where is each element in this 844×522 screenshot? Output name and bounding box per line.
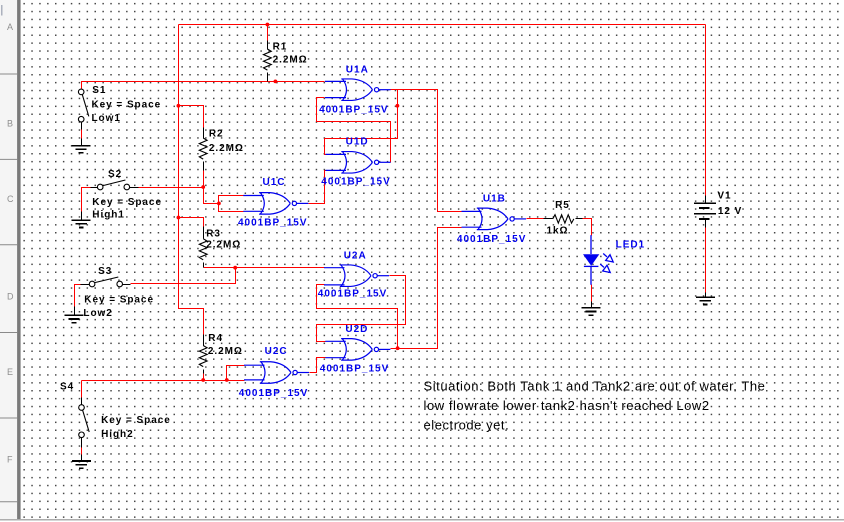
node: junction on row1 right of R1 xyxy=(274,80,278,84)
svg-text:2.2MΩ: 2.2MΩ xyxy=(209,143,244,154)
wire: V1 plus to top rail xyxy=(705,25,707,196)
ground under V1 xyxy=(705,293,707,298)
wire: S4 bottom to ground (red segment) xyxy=(81,448,83,455)
svg-text:High1: High1 xyxy=(92,210,125,221)
svg-text:Key = Space: Key = Space xyxy=(92,100,162,111)
wire: rail to R2 top xyxy=(179,106,204,128)
svg-text:4001BP_15V: 4001BP_15V xyxy=(239,388,308,399)
resistor R3 xyxy=(203,227,205,239)
dark divider bar xyxy=(17,0,21,519)
wire: U2A output to U2D input1 xyxy=(317,276,406,342)
svg-text:U2A: U2A xyxy=(344,250,367,261)
ground under S2 xyxy=(72,220,91,227)
wire: rail to R3 top xyxy=(179,218,204,227)
svg-text:F: F xyxy=(7,455,13,465)
svg-text:D: D xyxy=(7,292,14,302)
svg-text:1kΩ: 1kΩ xyxy=(547,225,569,236)
svg-text:Low2: Low2 xyxy=(83,308,112,319)
wire: S1/R1 row to U1A input 1 xyxy=(82,82,325,89)
svg-text:S4: S4 xyxy=(60,381,74,392)
wire: S4 top stub xyxy=(81,381,83,398)
node: junction U2D output xyxy=(396,346,400,350)
wire: U1A input2 feedback from U1D output xyxy=(317,98,391,163)
node: junction R4 bottom xyxy=(201,378,205,382)
svg-text:4001BP_15V: 4001BP_15V xyxy=(457,234,527,245)
svg-text:R4: R4 xyxy=(208,333,223,344)
svg-text:4001BP_15V: 4001BP_15V xyxy=(319,104,389,115)
node: junction R1 top xyxy=(266,23,270,27)
ground under LED1 xyxy=(591,302,593,308)
node: junction rail/R2 row xyxy=(177,104,181,108)
svg-text:High2: High2 xyxy=(101,429,134,440)
wire: S3 up to R3 row xyxy=(131,268,236,284)
svg-text:B: B xyxy=(7,119,13,129)
left ruler strip xyxy=(0,0,17,519)
wire: S4/R4 row to U2C input2 xyxy=(82,380,245,382)
svg-text:2.2MΩ: 2.2MΩ xyxy=(273,55,308,66)
svg-text:Key = Space: Key = Space xyxy=(101,415,171,426)
wire: U2D output to U1B input2 xyxy=(391,228,462,349)
NOR gate U2A (4001BP_15V) xyxy=(324,265,389,287)
wire: U2A input2 feedback from U2D output xyxy=(317,285,398,349)
ground under S4 xyxy=(72,461,91,468)
svg-text:U2C: U2C xyxy=(265,346,288,357)
wire: V1 minus to ground xyxy=(705,228,707,293)
svg-text:U1D: U1D xyxy=(346,136,369,147)
NOR gate U1B (4001BP_15V) xyxy=(462,208,527,230)
ground under S1 xyxy=(72,146,91,153)
node: junction rail/R3 row xyxy=(177,216,181,220)
ground under S3 xyxy=(65,315,84,322)
NOR gate U2D (4001BP_15V) xyxy=(325,339,390,361)
svg-text:V1: V1 xyxy=(717,191,731,202)
switch S3 (Key = Space) xyxy=(81,284,90,286)
svg-text:2.2MΩ: 2.2MΩ xyxy=(206,240,241,251)
wire: U2C output to U2D input2 xyxy=(310,358,326,373)
svg-text:4001BP_15V: 4001BP_15V xyxy=(320,363,390,374)
wire: S3 left terminal to ground xyxy=(75,285,90,307)
wire: U1A output to U1B input1 xyxy=(391,90,462,212)
svg-text:S3: S3 xyxy=(98,266,112,277)
wire: R3 bottom row to U2A input1 xyxy=(204,267,325,269)
svg-text:Key = Space: Key = Space xyxy=(92,197,162,208)
ruler top mark xyxy=(1,5,3,16)
node: junction U1C input tie xyxy=(217,202,221,206)
resistor R5 xyxy=(544,218,553,220)
wire: R2 bottom lead down to U1C input node xyxy=(204,171,219,204)
NOR gate U1C (4001BP_15V) xyxy=(243,193,308,215)
NOR gate U2C (4001BP_15V) xyxy=(244,362,309,384)
NOR gate U1D (4001BP_15V) xyxy=(326,152,391,174)
battery V1 12V xyxy=(705,196,707,204)
node: junction on U1A output branch xyxy=(396,104,400,108)
svg-text:A: A xyxy=(7,22,13,32)
svg-text:low flowrate lower tank2 hasn': low flowrate lower tank2 hasn't reached … xyxy=(424,398,710,413)
svg-text:4001BP_15V: 4001BP_15V xyxy=(321,177,391,188)
node: junction R2 bottom / S2 xyxy=(201,185,205,189)
wire: S2 left terminal to ground xyxy=(82,188,91,212)
LED LED1 xyxy=(583,235,613,285)
svg-text:LED1: LED1 xyxy=(616,240,646,251)
node: junction R3/S3 row xyxy=(233,266,237,270)
ruler tick marks xyxy=(0,73,17,75)
svg-text:2.2MΩ: 2.2MΩ xyxy=(208,346,243,357)
node: junction U2C input tie xyxy=(225,378,229,382)
svg-text:U1C: U1C xyxy=(263,177,286,188)
wire: R5 to LED1 anode xyxy=(583,219,592,236)
wire: R4 bottom stub xyxy=(203,374,205,381)
wire: top power rail from left rail to V1 xyxy=(179,24,706,26)
wire: U1B output to R5 xyxy=(527,218,544,220)
switch S1 (Key = Space) xyxy=(78,89,84,95)
wire: left vertical rail down to R4 xyxy=(179,25,204,335)
svg-text:4001BP_15V: 4001BP_15V xyxy=(318,289,388,300)
bottom edge line xyxy=(0,519,844,521)
svg-text:S1: S1 xyxy=(92,85,106,96)
svg-text:12 V: 12 V xyxy=(718,206,742,217)
svg-text:Situation: Both Tank 1 and Tan: Situation: Both Tank 1 and Tank2 are out… xyxy=(424,379,766,394)
NOR gate U1A (4001BP_15V) xyxy=(325,79,391,101)
resistor R2 xyxy=(203,128,205,139)
svg-text:R1: R1 xyxy=(273,42,288,53)
wire: LED1 cathode to ground xyxy=(591,285,593,302)
svg-text:S2: S2 xyxy=(108,169,122,180)
wire: U1A output branch down to U1D input1 xyxy=(325,90,398,155)
svg-text:U1B: U1B xyxy=(483,193,506,204)
svg-text:E: E xyxy=(7,367,13,377)
svg-text:R3: R3 xyxy=(206,229,221,240)
svg-text:U1A: U1A xyxy=(346,65,369,76)
wire: U1C output to U1D input2 xyxy=(309,171,326,204)
resistor R1 xyxy=(267,41,269,50)
svg-text:Key = Space: Key = Space xyxy=(84,295,154,306)
svg-text:4001BP_15V: 4001BP_15V xyxy=(238,218,308,229)
wire: S1 bottom to ground (red segment) xyxy=(81,130,83,139)
svg-text:U2D: U2D xyxy=(345,324,368,335)
wire: R1 top stub xyxy=(267,25,269,41)
wire: U2C tied inputs riser xyxy=(227,366,245,381)
switch S2 (Key = Space) xyxy=(91,187,98,189)
wire: U1C tied inputs xyxy=(219,196,244,212)
svg-text:R2: R2 xyxy=(209,128,224,139)
svg-text:C: C xyxy=(7,194,14,204)
resistor R4 xyxy=(203,335,205,346)
svg-text:Low1: Low1 xyxy=(92,113,121,124)
switch S4 (Key = Space) xyxy=(81,398,83,405)
wire: S2 to R2 bottom node xyxy=(139,187,204,189)
svg-text:R5: R5 xyxy=(555,200,570,211)
svg-text:electrode yet.: electrode yet. xyxy=(424,417,510,432)
